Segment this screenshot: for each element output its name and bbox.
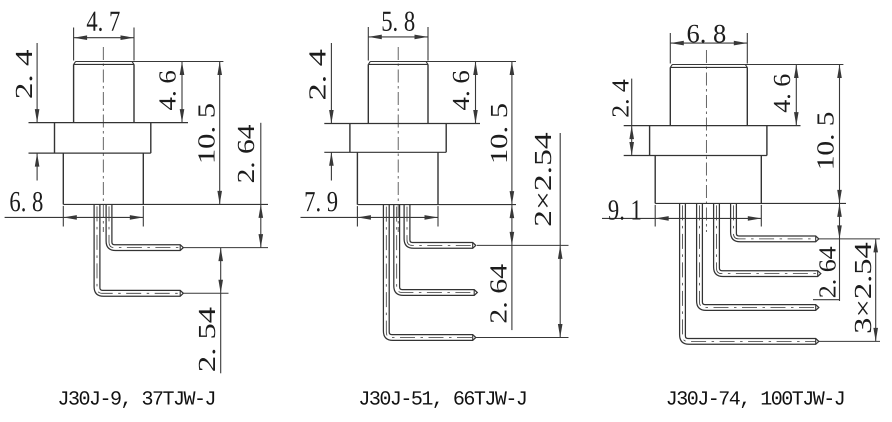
svg-text:2×2.54: 2×2.54: [530, 132, 557, 226]
J30J-74 dimension 6. 8 (plug width): [670, 33, 747, 64]
J30J-51 dimension 2.64 (body to first pin row): [510, 205, 515, 331]
J30J-74 dimension 10.5 (overall height): [672, 65, 843, 204]
J30J-9 dimension 2. 54 (pin row pitch): [218, 248, 223, 374]
J30J-51 pin row extension line: [477, 244, 569, 246]
svg-text:10. 5: 10. 5: [194, 103, 221, 164]
J30J-9 dimension 2.4 (flange thickness): [35, 43, 40, 181]
J30J-51 pin row 1: [404, 205, 476, 249]
J30J-51 pin row 3: [383, 205, 475, 341]
J30J-74 dimension 9. 1 (body width): [602, 205, 761, 227]
J30J-74 pin row 2: [714, 203, 821, 276]
J30J-74 pin row extension line: [819, 238, 880, 240]
J30J-9 vertical centerline: [102, 47, 104, 232]
svg-text:6. 8: 6. 8: [687, 18, 727, 48]
J30J-51 body: [357, 152, 516, 204]
J30J-9 dimension 6. 8 (body width): [5, 206, 144, 227]
svg-text:7. 9: 7. 9: [304, 186, 338, 218]
svg-text:10. 5: 10. 5: [812, 111, 839, 170]
J30J-9 dimension 4. 7 (plug width): [74, 28, 134, 61]
J30J-74 pin row 1: [731, 203, 819, 241]
svg-text:J30J-9, 37TJW-J: J30J-9, 37TJW-J: [58, 388, 216, 411]
J30J-51 dimension 5. 8 (plug width): [368, 27, 428, 61]
J30J-9 dimension 2.64 (body to first pin row): [259, 123, 264, 248]
J30J-9 pin row extension line: [183, 247, 268, 249]
J30J-51 dimension 2&#215;2.54 (pin row pitch): [558, 133, 563, 338]
J30J-74 dimension 2.64 (body to first pin row): [813, 203, 842, 301]
svg-text:2. 54: 2. 54: [194, 307, 221, 372]
J30J-9 pin row extension line: [183, 292, 229, 294]
svg-text:2. 64: 2. 64: [486, 264, 513, 324]
svg-text:J30J-74, 100TJW-J: J30J-74, 100TJW-J: [666, 388, 845, 411]
svg-text:9. 1: 9. 1: [608, 194, 642, 226]
svg-text:4. 7: 4. 7: [86, 6, 120, 38]
svg-text:2. 4: 2. 4: [607, 79, 634, 118]
J30J-74 body: [655, 156, 846, 204]
J30J-74 dimension 3&#215;2.54 (pin row pitch): [873, 239, 878, 342]
svg-text:10. 5: 10. 5: [486, 103, 513, 164]
svg-text:6. 8: 6. 8: [9, 186, 43, 218]
J30J-9 dimension 4.6 (plug height): [180, 62, 185, 123]
J30J-74 flange: [624, 126, 801, 156]
svg-text:2. 64: 2. 64: [815, 246, 842, 298]
J30J-51 dimension 4.6 (plug height): [473, 62, 478, 124]
J30J-9 body: [63, 153, 268, 204]
J30J-51 plug shell outline: [368, 62, 428, 124]
J30J-74 plug shell outline: [670, 65, 747, 126]
J30J-74 pin row 3: [697, 203, 819, 310]
J30J-9 plug shell outline: [74, 62, 134, 123]
J30J-51 pin row extension line: [476, 337, 569, 339]
J30J-74 dimension 4.6 (plug height): [794, 65, 799, 126]
svg-text:J30J-51, 66TJW-J: J30J-51, 66TJW-J: [358, 388, 526, 411]
J30J-74 pin row 4: [680, 203, 819, 344]
J30J-9 flange: [29, 123, 189, 154]
J30J-51 dimension 2.4 (flange thickness): [329, 43, 334, 181]
svg-text:4. 6: 4. 6: [769, 74, 796, 113]
svg-text:4. 6: 4. 6: [448, 70, 475, 110]
svg-text:2. 4: 2. 4: [11, 49, 38, 99]
svg-text:3×2.54: 3×2.54: [850, 242, 877, 334]
J30J-51 vertical centerline: [397, 47, 399, 232]
svg-text:2. 4: 2. 4: [305, 49, 332, 100]
J30J-74 pin row extension line: [819, 340, 881, 342]
J30J-9 pin row 2: [94, 204, 183, 296]
J30J-51 flange: [324, 124, 480, 153]
J30J-51 dimension 7. 9 (body width): [301, 206, 439, 226]
J30J-74 vertical centerline: [705, 50, 707, 232]
J30J-74 dimension 2.4 (flange thickness): [629, 79, 634, 156]
J30J-9 pin row 1: [106, 204, 183, 250]
svg-text:2. 64: 2. 64: [233, 125, 260, 184]
svg-text:4. 6: 4. 6: [155, 70, 182, 110]
J30J-51 dimension 10.5 (overall height): [370, 62, 516, 205]
J30J-51 pin row 2: [394, 205, 478, 296]
svg-text:5. 8: 5. 8: [381, 6, 415, 38]
J30J-9 dimension 10.5 (overall height): [76, 62, 224, 205]
